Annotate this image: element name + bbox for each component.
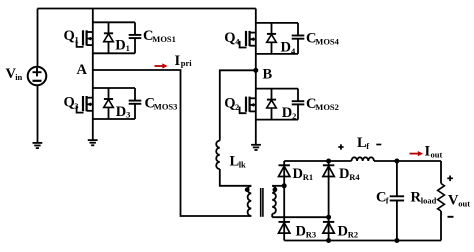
svg-text:lk: lk (239, 160, 246, 170)
junction C_f bottom (394, 238, 399, 243)
svg-text:3: 3 (126, 110, 130, 120)
node A label (77, 62, 88, 78)
diode D_R4 (323, 165, 334, 176)
junction D_R4 top (326, 159, 331, 164)
ground (leg A) (88, 140, 98, 145)
svg-text:B: B (263, 67, 273, 83)
svg-text:D: D (115, 38, 125, 54)
label V_out plus (447, 176, 453, 182)
label D_R1 (293, 166, 314, 182)
label C_MOS3 (145, 95, 178, 111)
svg-text:out: out (458, 199, 470, 209)
capacitor C_MOS2 (292, 89, 305, 120)
wire right rectifier leg (328, 161, 330, 241)
svg-text:f: f (366, 141, 369, 151)
svg-text:MOS3: MOS3 (154, 102, 178, 112)
diode D1 (104, 22, 114, 53)
label Q4 (224, 30, 240, 47)
diode D2 (267, 89, 277, 120)
label L_f (357, 135, 369, 151)
node lines Q4 cell (256, 23, 298, 54)
svg-text:I: I (175, 53, 181, 69)
svg-text:4: 4 (235, 37, 240, 47)
label D_R2 (338, 223, 359, 239)
label R_load (411, 189, 437, 205)
svg-text:2: 2 (292, 111, 296, 121)
svg-text:f: f (386, 195, 389, 205)
diode D3 (104, 88, 114, 119)
inductor L_f (352, 157, 374, 161)
junction secondary-bottom / right rectifier leg (326, 215, 331, 220)
svg-text:pri: pri (181, 58, 193, 68)
diode D_R3 (279, 222, 290, 233)
label Q1 (64, 28, 79, 45)
wire Vin bottom segment (37, 85, 39, 143)
node lines Q2 cell (256, 89, 298, 120)
capacitor C_f (390, 161, 404, 241)
label D_R3 (296, 223, 317, 239)
secondary polarity dot (273, 187, 278, 192)
transistor Q3 (77, 96, 93, 113)
transformer primary winding (248, 186, 252, 216)
node lines Q3 cell (93, 88, 135, 119)
label I_out (425, 143, 443, 159)
label D3 (116, 104, 131, 120)
transformer core (261, 188, 263, 217)
svg-text:2: 2 (235, 102, 239, 112)
capacitor C_MOS1 (129, 22, 142, 53)
resistor R_load (438, 161, 445, 241)
svg-text:D: D (116, 104, 126, 120)
ground (Vin) (33, 143, 43, 148)
node B junction (253, 68, 258, 73)
inductor L_lk (216, 141, 220, 169)
junction secondary-top / left rectifier leg (282, 183, 287, 188)
svg-text:Q: Q (224, 30, 235, 46)
voltage source Vin symbol (28, 67, 47, 86)
svg-text:1: 1 (75, 35, 79, 45)
label L_f plus (338, 144, 343, 149)
svg-text:D: D (293, 166, 303, 182)
label C_f (376, 189, 389, 205)
label V_out minus (448, 216, 454, 218)
label L_f minus (376, 144, 381, 146)
capacitor C_MOS4 (292, 23, 305, 54)
label C_MOS2 (306, 96, 339, 112)
wire left bridge leg (92, 9, 94, 141)
label C_MOS1 (143, 28, 176, 44)
diode D_R2 (323, 222, 334, 233)
current arrow I_pri (155, 63, 168, 68)
capacitor C_MOS3 (129, 88, 142, 119)
diode D4 (267, 23, 277, 54)
junction D_R2 bottom (326, 238, 331, 243)
primary polarity dot (245, 187, 250, 192)
svg-text:in: in (15, 72, 22, 82)
ground (leg B) (251, 145, 261, 150)
wire left rectifier leg (283, 161, 285, 241)
wire node A to primary (93, 70, 252, 216)
node B label (263, 67, 273, 83)
label L_lk (230, 154, 247, 170)
svg-text:Q: Q (64, 28, 75, 44)
svg-text:Q: Q (64, 95, 75, 111)
wire top rail (38, 8, 256, 10)
svg-text:Q: Q (224, 95, 235, 111)
wire bottom output rail (284, 240, 441, 242)
node lines Q1 cell (93, 22, 135, 53)
label V_out (448, 193, 470, 209)
svg-text:D: D (296, 223, 306, 239)
label D_R4 (339, 166, 360, 182)
svg-text:D: D (339, 166, 349, 182)
svg-text:1: 1 (126, 43, 130, 53)
svg-text:R2: R2 (348, 230, 358, 240)
svg-text:D: D (281, 40, 291, 56)
wire L_lk to primary (220, 169, 252, 186)
svg-text:R4: R4 (349, 172, 360, 182)
transistor Q4 (240, 31, 256, 48)
svg-text:MOS1: MOS1 (152, 34, 176, 44)
svg-text:load: load (421, 195, 437, 205)
svg-text:D: D (338, 223, 348, 239)
label Vin (6, 66, 23, 82)
wire node B to L_lk (220, 70, 256, 140)
label I_pri (175, 53, 193, 69)
svg-text:3: 3 (74, 101, 78, 111)
wire secondary top to rectifier (272, 185, 284, 187)
label D4 (281, 40, 297, 57)
label Q3 (64, 95, 79, 112)
svg-text:A: A (77, 62, 88, 78)
wire right bridge leg (255, 9, 257, 145)
svg-text:MOS4: MOS4 (315, 37, 339, 47)
transistor Q1 (77, 30, 93, 47)
wire rectifier top rail (284, 160, 441, 162)
label D1 (115, 38, 130, 54)
transformer secondary winding (272, 186, 276, 217)
svg-text:out: out (431, 149, 443, 159)
wire secondary bottom to rectifier (272, 216, 328, 218)
junction C_f top (394, 159, 399, 164)
wire Vin top segment (37, 9, 39, 68)
svg-text:D: D (282, 105, 292, 121)
svg-text:R3: R3 (306, 230, 316, 240)
label Q2 (224, 95, 239, 112)
diode D_R1 (279, 165, 290, 176)
svg-text:MOS2: MOS2 (315, 102, 339, 112)
label D2 (282, 105, 297, 121)
svg-text:R1: R1 (303, 172, 313, 182)
label C_MOS4 (306, 30, 340, 46)
transistor Q2 (240, 97, 256, 114)
current arrow I_out (410, 151, 424, 156)
